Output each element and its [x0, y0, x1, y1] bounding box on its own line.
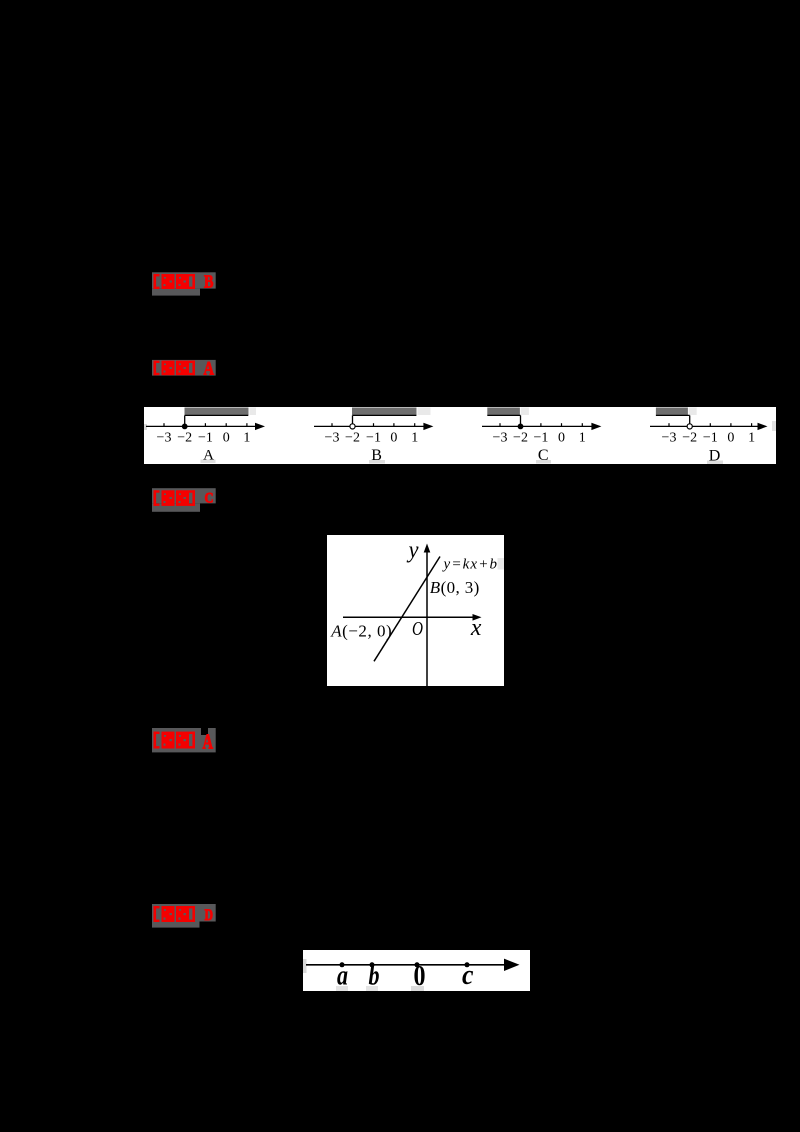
- ghost marks under labels: [336, 986, 348, 991]
- point 0: [415, 962, 420, 967]
- svg-text:C: C: [538, 447, 549, 464]
- svg-text:1: 1: [748, 431, 755, 446]
- ghost mark: [498, 558, 505, 570]
- number line D: [650, 408, 776, 465]
- answer label 3 (【答案】C): [150, 486, 222, 516]
- svg-text:A: A: [203, 730, 214, 754]
- svg-text:c: c: [462, 960, 474, 991]
- point c: [465, 962, 470, 967]
- number line B: [314, 408, 433, 464]
- point a: [340, 962, 345, 967]
- svg-text:−3: −3: [662, 431, 677, 446]
- point b: [370, 962, 375, 967]
- answer label 5 (【答案】D): [150, 902, 222, 932]
- answer label 1 (【答案】B): [150, 270, 222, 300]
- svg-text:−3: −3: [325, 431, 340, 446]
- svg-text:O: O: [412, 618, 423, 640]
- svg-text:D: D: [709, 447, 721, 464]
- svg-text:D: D: [205, 907, 214, 924]
- ghost mark left: [303, 959, 307, 973]
- axis line: [306, 964, 508, 966]
- svg-text:y: y: [407, 538, 419, 564]
- answer label 4 (【答案】A): [150, 726, 222, 756]
- number line C: [482, 408, 601, 464]
- figure box 2: linear function graph: [327, 535, 504, 686]
- svg-text:1: 1: [243, 431, 250, 446]
- figure box 1: four number lines A-D: [144, 407, 776, 464]
- svg-text:0: 0: [390, 431, 397, 446]
- svg-text:−2: −2: [345, 431, 360, 446]
- svg-text:0: 0: [558, 431, 565, 446]
- svg-text:1: 1: [411, 431, 418, 446]
- svg-text:−3: −3: [493, 431, 508, 446]
- svg-text:−3: −3: [157, 431, 172, 446]
- svg-text:A: A: [204, 359, 215, 380]
- svg-text:−2: −2: [513, 431, 528, 446]
- svg-text:−2: −2: [177, 431, 192, 446]
- x axis: [343, 614, 482, 621]
- svg-text:a: a: [337, 960, 348, 992]
- number line A: [144, 408, 265, 464]
- svg-text:B: B: [371, 447, 382, 464]
- answer label 2 (【答案】A): [150, 357, 222, 387]
- svg-text:−1: −1: [703, 431, 718, 446]
- arrowhead: [504, 959, 520, 971]
- svg-text:−1: −1: [533, 431, 548, 446]
- svg-text:0: 0: [414, 961, 426, 991]
- svg-text:−2: −2: [682, 431, 697, 446]
- svg-text:B(0, 3): B(0, 3): [430, 578, 480, 597]
- svg-text:−1: −1: [366, 431, 381, 446]
- svg-text:1: 1: [579, 431, 586, 446]
- svg-text:A: A: [203, 447, 214, 463]
- line y=kx+b: [374, 557, 440, 662]
- svg-text:y=kx+b: y=kx+b: [442, 556, 498, 572]
- figure box 3: number line with a, b, 0, c: [303, 950, 530, 991]
- svg-text:x: x: [470, 615, 482, 641]
- svg-text:B: B: [204, 272, 214, 292]
- svg-text:0: 0: [223, 431, 230, 446]
- svg-text:−1: −1: [198, 431, 213, 446]
- svg-text:b: b: [369, 960, 380, 992]
- svg-text:0: 0: [727, 431, 734, 446]
- y axis: [424, 544, 431, 687]
- svg-text:A(−2, 0): A(−2, 0): [330, 622, 392, 641]
- svg-text:C: C: [205, 490, 214, 506]
